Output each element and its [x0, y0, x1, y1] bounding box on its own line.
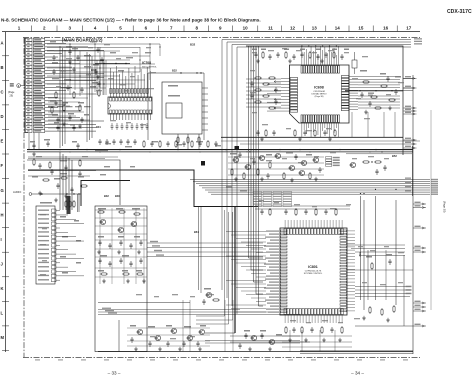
wire label: [76, 262, 81, 264]
junction: [375, 149, 376, 150]
bus name labels row: [48, 106, 91, 107]
control signal wires to IC801: [147, 241, 263, 257]
ground: [68, 60, 72, 64]
resistor R045: [334, 129, 336, 137]
value label: [54, 122, 59, 124]
junction: [225, 149, 226, 150]
capacitor C112: [76, 143, 79, 149]
polar capacitor C230: [201, 161, 205, 166]
svg-text:F: F: [1, 163, 4, 168]
ground: [134, 347, 138, 351]
wire label: [76, 240, 81, 242]
value label: [93, 64, 99, 66]
switch signal wires: [98, 308, 300, 315]
svg-text:14: 14: [335, 25, 341, 30]
capacitor C080: [238, 152, 241, 158]
svg-text:B32: B32: [172, 69, 177, 73]
capacitor C122: [98, 240, 101, 246]
capacitor C086: [105, 139, 108, 145]
ground: [117, 250, 121, 254]
resistor R047: [254, 89, 262, 91]
svg-text:(Page 30): (Page 30): [443, 201, 447, 213]
resistor R121: [133, 213, 141, 215]
AUDIO input terminal: [13, 190, 81, 195]
svg-text:I: I: [1, 237, 2, 242]
wires bottom cluster: [127, 328, 210, 346]
capacitor C005: [72, 67, 75, 73]
ground: [320, 59, 324, 63]
svg-text:B52: B52: [392, 154, 397, 158]
node marker (1) to page 29: [8, 83, 25, 97]
wire: [205, 340, 300, 342]
resistor R041: [294, 129, 296, 137]
resistor R049: [262, 83, 270, 85]
capacitor C083: [294, 154, 297, 160]
ground: [328, 137, 332, 141]
value label: [54, 178, 60, 180]
capacitor C142: [166, 341, 169, 347]
value label: [332, 49, 337, 51]
capacitor C130: [129, 261, 132, 267]
thick bus corner: [81, 181, 130, 207]
resistor R091: [143, 140, 145, 148]
value label: [344, 49, 349, 51]
svg-text:B32: B32: [104, 194, 109, 198]
value label: [168, 95, 180, 97]
bus wires from top right to IC801: [222, 40, 411, 315]
wires middle band: [28, 141, 420, 159]
resistor R157: [321, 326, 323, 334]
right bus vertical wire: [412, 75, 414, 354]
capacitor C011: [80, 87, 83, 93]
value label: [132, 208, 140, 210]
capacitor C128: [108, 261, 111, 267]
capacitor C151: [324, 209, 327, 215]
system control microprocessor IC801: [264, 220, 355, 323]
wire: [95, 150, 108, 152]
value label: [386, 254, 392, 256]
transistor Q137: [170, 328, 176, 333]
board border bottom (dash-dot): [23, 356, 420, 358]
capacitor C044: [323, 130, 326, 136]
value label: [68, 113, 74, 115]
junction: [199, 151, 200, 152]
ground: [364, 110, 368, 114]
value label: [406, 289, 412, 291]
bus wires into power section: [60, 152, 72, 210]
value label: [70, 124, 75, 126]
value label: [30, 141, 35, 143]
capacitor C156: [310, 327, 313, 333]
resistor R058: [370, 96, 378, 98]
capacitor C054: [250, 93, 253, 99]
ground: [142, 279, 146, 283]
resistor R036: [333, 51, 335, 59]
resistor R017: [55, 91, 57, 99]
junction: [73, 193, 74, 194]
svg-text:IC708: IC708: [142, 61, 151, 65]
ground: [386, 318, 390, 322]
resistor R153: [285, 326, 287, 334]
junction: [249, 151, 250, 152]
wire bus branch: [27, 160, 120, 205]
value labels upper left: [50, 41, 151, 85]
value label: [300, 49, 305, 51]
ground: [62, 122, 66, 126]
op-amp/switch IC701: [108, 66, 152, 120]
svg-text:CXP82224-017S: CXP82224-017S: [305, 271, 322, 273]
connector CN502: [36, 206, 84, 284]
value label: [286, 152, 293, 154]
wire: [355, 325, 413, 327]
grid row letters A-M: [1, 41, 10, 351]
capacitor C126: [139, 240, 142, 246]
capacitor C140: [130, 337, 133, 343]
value label: [284, 49, 289, 51]
value label: [244, 330, 250, 332]
wires from CN901: [45, 40, 104, 131]
capacitor C002: [76, 55, 79, 61]
capacitor C090: [133, 139, 136, 145]
junction: [279, 149, 280, 150]
svg-text:SW CONTROL: SW CONTROL: [142, 67, 158, 69]
ground: [388, 106, 392, 110]
capacitor C037: [340, 54, 343, 60]
wires upper left section: [47, 44, 160, 96]
resistor array R751-R763: [110, 89, 149, 94]
junction: [177, 149, 178, 150]
transistor Q136: [154, 335, 160, 340]
junction: [369, 151, 370, 152]
capacitor C092: [150, 141, 153, 147]
junction dots upper left: [69, 43, 160, 84]
resistor R119: [97, 211, 105, 213]
right bus vertical wire 2: [430, 110, 432, 310]
component value labels (scan texture): [40, 44, 404, 339]
resistor R107: [42, 179, 50, 181]
wire: [347, 269, 413, 271]
connector CN901: [25, 38, 45, 132]
capacitor C065: [368, 101, 371, 107]
value label: [230, 153, 237, 155]
transistor Q066: [232, 157, 238, 162]
resistor R052: [268, 107, 276, 109]
dark bus wire: [234, 207, 236, 333]
resistor R152: [335, 208, 337, 216]
resistor R114: [49, 161, 51, 169]
junction dots on audio bus: [360, 189, 397, 194]
svg-text:SYSTEM CONTROL: SYSTEM CONTROL: [304, 273, 323, 275]
value label: [134, 236, 140, 238]
value label: [90, 86, 96, 88]
vertical wire pair: [199, 207, 201, 293]
resistor R148: [295, 208, 297, 216]
capacitor C104: [78, 171, 81, 177]
wire: [98, 302, 190, 304]
junction: [86, 149, 87, 150]
bus net name labels: [414, 38, 422, 44]
ground: [256, 59, 260, 63]
svg-text:N-8. SCHEMATIC DIAGRAM — MAIN: N-8. SCHEMATIC DIAGRAM — MAIN SECTION (1…: [1, 18, 261, 23]
svg-text:CDX-317C: CDX-317C: [447, 9, 472, 15]
resistor R812: [371, 262, 373, 270]
junction: [196, 72, 197, 73]
capacitor C031: [292, 54, 295, 60]
capacitor C014: [80, 117, 83, 123]
ground: [64, 194, 68, 198]
value label: [44, 139, 50, 141]
resistor R097: [191, 140, 193, 148]
ground: [178, 347, 182, 351]
resistor R061: [374, 107, 382, 109]
ground: [38, 191, 42, 195]
value label: [66, 46, 72, 48]
junction: [78, 193, 79, 194]
wires right of IC608: [358, 77, 400, 108]
transistor Q072: [298, 170, 304, 175]
resistor R115: [79, 159, 81, 167]
wire node rail above IC708: [95, 63, 130, 64]
capacitor C032: [300, 52, 303, 58]
capacitor C087: [112, 139, 115, 145]
wires to bottom rail: [183, 300, 233, 352]
wire: [385, 250, 387, 300]
ground: [78, 124, 82, 128]
capacitor C056: [274, 99, 277, 105]
capacitor C106: [70, 187, 73, 193]
value label: [200, 325, 206, 327]
value label: [260, 330, 266, 332]
main bus line B+ lower: [27, 151, 413, 153]
wire: [367, 250, 369, 300]
capacitor C007: [66, 85, 69, 91]
resistor R027: [262, 51, 264, 59]
resistor R023: [177, 136, 179, 144]
capacitor C063: [386, 76, 389, 82]
resistor R095: [175, 140, 177, 148]
capacitor C127: [98, 258, 101, 264]
polar capacitor C231: [235, 146, 240, 150]
junction: [149, 151, 150, 152]
wire label: [60, 256, 66, 258]
transistor Q067: [244, 164, 250, 169]
ground: [137, 250, 141, 254]
dark bus segment: [67, 196, 71, 214]
ground: [260, 177, 264, 181]
wire: [28, 170, 96, 172]
wire: [230, 335, 300, 337]
resistor R020: [51, 106, 53, 114]
resistor R099: [207, 140, 209, 148]
value label: [100, 255, 107, 257]
value label: [32, 176, 38, 178]
capacitor C010: [52, 69, 55, 75]
svg-text:AUDIO: AUDIO: [13, 190, 21, 194]
resistor R030: [285, 51, 287, 59]
ground: [314, 177, 318, 181]
capacitor C209: [383, 165, 386, 171]
resistor R033: [309, 51, 311, 59]
transistor Q504: [205, 292, 211, 297]
value label: [148, 326, 155, 328]
junction: [381, 151, 382, 152]
power supply section box: [95, 206, 147, 352]
bus wires from servo box to IC801: [249, 46, 264, 306]
servo section box: [246, 46, 403, 155]
capacitor C111: [46, 141, 49, 147]
transistor Q703: [268, 339, 274, 344]
ground: [268, 347, 272, 351]
resistor R160: [369, 306, 371, 314]
resistor R024: [187, 136, 189, 144]
capacitor C026: [254, 52, 257, 58]
wires servo box to right bus: [403, 78, 413, 90]
resistor R043: [314, 129, 316, 137]
capacitor C001: [68, 49, 71, 55]
junction: [248, 149, 249, 150]
vertical bus wires left section: [60, 46, 92, 148]
capacitor C089: [126, 139, 129, 145]
capacitor C103: [64, 165, 67, 171]
wire label: [60, 216, 66, 218]
wire label: [62, 272, 68, 274]
transistor Q070: [288, 165, 294, 170]
junction: [119, 149, 120, 150]
resistor R113: [33, 158, 35, 166]
resistor R161: [381, 308, 383, 316]
svg-text:D: D: [1, 114, 4, 119]
resistor R120: [118, 211, 126, 213]
signal name label boxes: [253, 191, 292, 206]
svg-text:29): 29): [10, 94, 14, 97]
value label: [380, 73, 386, 75]
capacitor C062: [360, 92, 363, 98]
capacitor C094: [166, 141, 169, 147]
resistor R048: [254, 101, 262, 103]
value label: [276, 334, 282, 336]
value label: [116, 208, 123, 210]
ground: [288, 59, 292, 63]
capacitor C084: [318, 167, 321, 173]
capacitor C100: [214, 141, 217, 147]
ground: [234, 177, 238, 181]
svg-text:C: C: [1, 90, 4, 95]
junction: [371, 161, 372, 162]
svg-text:B61: B61: [194, 230, 199, 234]
svg-text:16: 16: [383, 25, 389, 30]
capacitor C081: [252, 159, 255, 165]
svg-text:L: L: [1, 311, 4, 316]
transistor Q117: [117, 227, 123, 232]
resistor R302: [69, 200, 71, 208]
value label: [395, 76, 401, 78]
analog section box top: [221, 136, 403, 138]
junction: [69, 151, 70, 152]
ground: [248, 347, 252, 351]
capacitor C147: [284, 209, 287, 215]
resistor R050: [262, 95, 270, 97]
resistor R060: [388, 99, 396, 101]
svg-text:B30: B30: [115, 194, 120, 198]
resistor R132: [100, 273, 108, 275]
svg-text:12: 12: [290, 25, 296, 30]
wires to page 30 connectors: [404, 76, 427, 327]
resistor R075: [243, 172, 245, 180]
wire label: [62, 236, 68, 238]
capacitor C143: [182, 341, 185, 347]
transistor Q702: [250, 335, 256, 340]
capacitor C125: [129, 243, 132, 249]
ground: [54, 198, 58, 202]
transistor Q139: [198, 329, 204, 334]
audio output bus wires: [190, 180, 430, 195]
resistor R162: [393, 305, 395, 313]
capacitor C042: [303, 130, 306, 136]
ground: [288, 338, 292, 342]
ground: [260, 137, 264, 141]
value label: [118, 236, 124, 238]
wire: [196, 212, 229, 324]
wire: [196, 210, 225, 316]
value label: [184, 326, 191, 328]
wire: [28, 175, 90, 177]
grid ruler left line: [5, 32, 7, 352]
wire: [346, 153, 412, 155]
capacitor C131: [139, 258, 142, 264]
capacitor C703: [260, 333, 263, 339]
ground: [158, 347, 162, 351]
resistor R146: [269, 208, 271, 216]
junction: [309, 151, 310, 152]
resistor R134: [136, 273, 144, 275]
capacitor C208: [375, 169, 378, 175]
board border top (dash-dot): [23, 37, 420, 39]
svg-text:A: A: [1, 41, 4, 46]
value label: [98, 208, 106, 210]
ground bus lower right lower: [300, 352, 413, 354]
resistor R074: [231, 168, 233, 176]
wire: [411, 146, 413, 196]
junction: [66, 193, 67, 194]
capacitor C053: [250, 81, 253, 87]
value label: [122, 270, 128, 272]
capacitor C149: [304, 209, 307, 215]
value label: [62, 102, 68, 104]
svg-text:B: B: [1, 65, 4, 70]
junction dots on servo supply line: [301, 45, 337, 46]
svg-text:17: 17: [406, 25, 412, 30]
transistor Q116: [99, 219, 105, 224]
junction: [375, 90, 376, 91]
grid column numbers 1-17: [18, 25, 412, 31]
resistor R209: [374, 161, 382, 163]
ground: [304, 338, 308, 342]
svg-text:11: 11: [268, 25, 273, 30]
wire: [230, 341, 310, 343]
ground: [362, 316, 366, 320]
ground: [338, 338, 342, 342]
ground: [298, 137, 302, 141]
value label: [252, 49, 257, 51]
capacitor C008: [97, 81, 100, 87]
svg-text:DIGITAL SERVO: DIGITAL SERVO: [311, 93, 327, 96]
wires power section: [95, 208, 147, 284]
value label: [122, 255, 129, 257]
bus fan-out wires to IC801: [226, 232, 266, 313]
svg-text:15: 15: [358, 25, 364, 30]
value label: [246, 151, 252, 153]
capacitor C040: [272, 130, 275, 136]
